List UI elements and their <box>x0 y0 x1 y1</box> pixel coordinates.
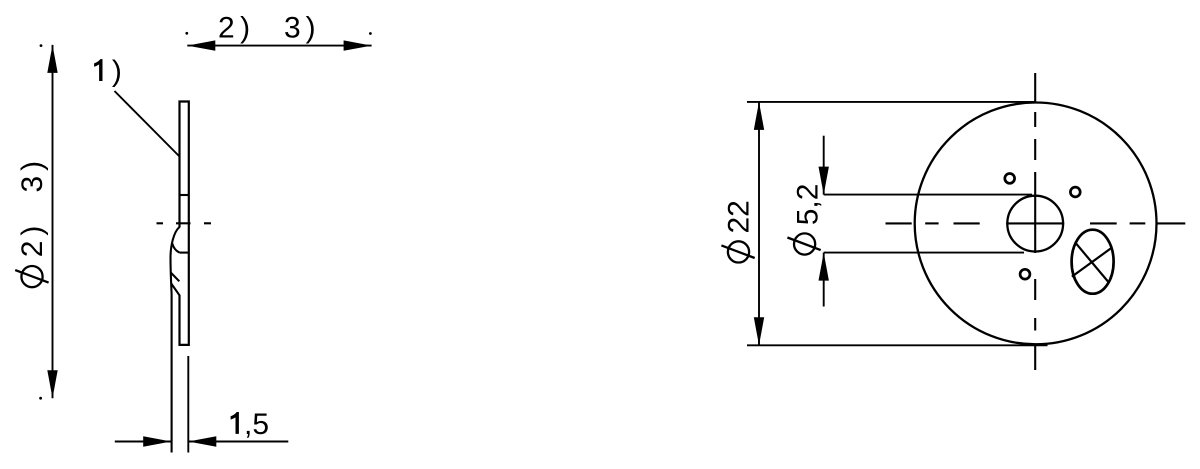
diameter symbol of Ø5,2 <box>787 233 820 254</box>
left vertical dimension line <box>52 45 54 398</box>
dome bulge outline merging into extension line <box>171 227 180 453</box>
arrowhead 1,5 left <box>143 436 171 446</box>
inner edge line upper <box>180 194 189 196</box>
ellipse marker <box>1072 230 1114 294</box>
svg-text:2): 2) <box>16 221 49 258</box>
dimension line 1,5 left part <box>115 441 171 443</box>
leader line for 1) <box>115 91 180 157</box>
extension line Ø5,2 upper <box>824 194 1032 196</box>
leader text 1) <box>94 59 102 81</box>
witness dot left-dim top <box>40 44 43 47</box>
arrowhead Ø22 top <box>754 102 764 130</box>
Ø5,2 dimension line upper <box>823 136 825 195</box>
svg-text:5,2: 5,2 <box>792 184 825 226</box>
small hole lower <box>1020 269 1030 279</box>
arrowhead top-left <box>187 40 215 50</box>
arrowhead 1,5 right <box>188 436 216 446</box>
centre hole circle <box>1007 196 1063 252</box>
arrowhead top-right <box>344 40 372 50</box>
arrowhead left-dim top <box>47 45 57 73</box>
diameter symbol of Ø22 <box>721 241 754 262</box>
value label 1,5 <box>231 412 239 434</box>
Ø5,2 dimension line lower <box>823 253 825 307</box>
vertical centre line <box>1034 73 1036 370</box>
extension line Ø22 bottom <box>747 344 1048 346</box>
arrowhead left-dim bottom <box>47 370 57 398</box>
extension line Ø22 top <box>747 101 1036 103</box>
disc side-view outline <box>180 102 189 345</box>
svg-text:3): 3) <box>284 12 321 45</box>
svg-text:3): 3) <box>16 156 49 193</box>
inner edge line lower <box>180 252 189 254</box>
extension line Ø5,2 lower <box>824 252 1024 254</box>
svg-text:2): 2) <box>218 12 256 45</box>
extension line right <box>187 356 189 453</box>
witness dot top-right <box>369 32 372 35</box>
ellipse cross chord 2 <box>1072 247 1112 276</box>
svg-text:,5: ,5 <box>244 408 269 441</box>
svg-text:22: 22 <box>723 200 756 233</box>
dimension line 1,5 right part <box>188 441 288 443</box>
centre line of side view (dashes) <box>157 222 212 224</box>
ellipse cross chord 1 <box>1075 243 1108 282</box>
horizontal centre line <box>886 222 1186 224</box>
svg-text:): ) <box>112 55 122 88</box>
small hole upper-left <box>1005 174 1015 184</box>
arrowhead Ø5,2 lower (pointing up) <box>819 253 829 281</box>
disc outline circle <box>915 102 1157 344</box>
small hole upper-right <box>1070 187 1080 197</box>
Ø22 dimension line <box>758 102 760 345</box>
arrowhead Ø5,2 upper (pointing down) <box>819 167 829 195</box>
witness dot left-dim bottom <box>39 397 42 400</box>
top dimension line 2) 3) <box>187 45 371 47</box>
arrowhead Ø22 bottom <box>754 317 764 345</box>
diameter symbol of left label <box>15 266 48 287</box>
witness dot top-left <box>185 32 188 35</box>
